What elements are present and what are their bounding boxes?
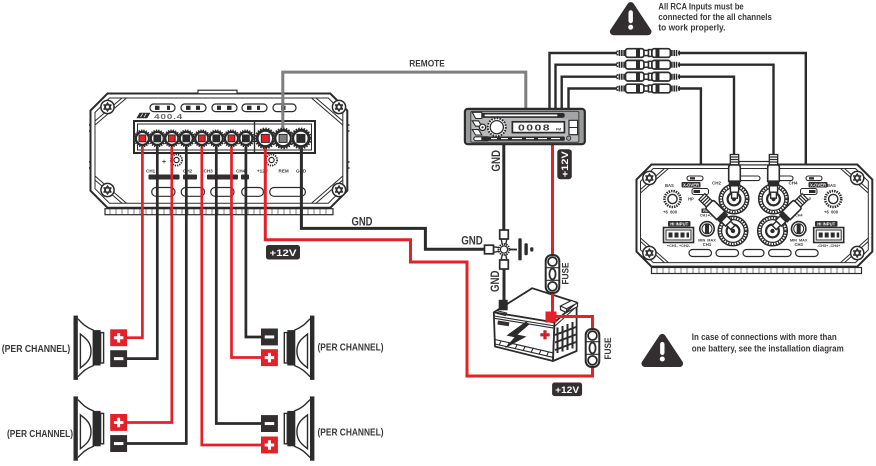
svg-text:In case of connections with mo: In case of connections with more than [692,332,837,343]
wire: remote gray from amp REM terminal to head unit [283,72,526,140]
amp2 corner diagonals [641,169,869,263]
battery positive terminal red [546,312,557,323]
wire: GND black from amp to ground junction [301,138,499,249]
RCA plug into amp2 top-left jack [729,155,741,199]
battery lid lip lines [494,290,575,329]
amp1 corner screws [101,100,114,113]
label +12V box near battery [552,383,582,397]
RCA plug diagonal into amp2 bottom-right jack [770,192,809,231]
RCA cable pair 1 [617,49,681,58]
amp1 top tab [198,90,237,94]
amp2 HI INPUT right [815,221,838,227]
amp2 bottom oval slots [689,250,818,257]
wire: RCA line 4 [569,89,618,111]
svg-text:(PER CHANNEL): (PER CHANNEL) [7,428,73,440]
RCA plug into amp2 top-right jack [768,155,780,199]
svg-text:+: + [162,159,166,166]
ground junction block [485,230,510,269]
svg-text:+12V: +12V [560,151,571,178]
warning text battery [692,332,844,354]
amp2 base finned strip [652,268,862,274]
battery BT1 [494,288,578,361]
amp1 bridged bars [149,175,250,180]
wire: speaker CH4- black [246,138,268,337]
svg-text:0008: 0008 [518,122,551,132]
amplifier A2 (top view with RCA inputs) [637,162,873,274]
head unit volume knob [488,118,506,136]
SP4 + terminal [261,437,278,454]
battery right face [553,303,577,362]
head unit bottom button strip [481,137,565,141]
svg-text:X-OVER: X-OVER [683,183,699,188]
wire: GND from head unit down to junction [502,142,505,244]
amplifier A1 (4-channel, front view) [89,90,350,215]
amp1 terminal center squares [139,134,305,142]
amp2 RCA jack bottom-right [758,216,788,246]
wire: speaker CH4+ red [232,138,269,358]
battery lightning bolt [505,322,530,349]
speaker SP2 (bottom left) [74,396,104,460]
amp2 RCA jack top-left [719,184,749,214]
label +12V rotated under head unit [557,149,572,179]
amp2 body octagon [637,165,873,267]
battery plus mark red [540,330,549,339]
amp1 strip divider [254,121,256,153]
svg-text:HI INPUT: HI INPUT [817,222,835,227]
head unit right button [569,120,578,134]
battery vent block [561,301,578,313]
head unit right top panel [563,112,579,119]
wire: RCA line 1 from head unit [550,53,618,110]
amp1 gain knob 2 [266,154,277,165]
amp2 top slots [687,176,822,181]
wire: speaker CH1+ red [120,138,142,338]
label +12V box near amp [266,245,300,260]
amp1 top vent connector row [150,104,296,112]
SP1 + terminal [110,329,127,346]
svg-text:+12V: +12V [270,248,298,259]
head unit small button circle [479,124,485,130]
wire: speaker CH3+ red [202,138,268,445]
head unit (car stereo) [465,109,585,144]
amp1 corner diagonals [95,98,343,203]
battery front face [494,312,555,361]
amp1 terminal strip [134,121,315,153]
svg-text:+6 600: +6 600 [824,210,839,215]
svg-text:400.4: 400.4 [154,114,183,121]
SP1 - terminal [110,350,127,367]
RCA plug diagonal into amp2 bottom-left jack [698,192,737,231]
svg-text:CH2: CH2 [712,181,721,186]
fuse F2 (battery main) [586,329,600,367]
svg-text:+CH1- +CH2-: +CH1- +CH2- [667,244,691,248]
SP3 - terminal [261,329,278,346]
svg-text:connected for the all channels: connected for the all channels [658,12,772,23]
amp2 x-over label left [682,182,701,188]
svg-text:to work properly.: to work properly. [658,22,725,33]
amp1 power terminals [255,129,275,149]
amp2 corner screws [643,171,656,184]
amp2 RCA jack top-right [759,184,789,214]
svg-text:FUSE: FUSE [561,263,572,285]
amp1 logo block [136,113,150,118]
amp2 inner outline [641,169,869,263]
wire: RCA line 2 [556,65,618,110]
svg-text:one battery, see the installat: one battery, see the installation diagra… [692,343,844,354]
svg-text:BAS: BAS [827,183,836,188]
SP2 - terminal [110,435,127,452]
svg-text:REMOTE: REMOTE [409,59,445,70]
head unit CD slot [481,113,565,118]
svg-text:GND: GND [461,233,483,247]
amp1 bottom oval slots [152,188,306,197]
head unit display [512,122,564,133]
svg-text:CH4: CH4 [236,169,246,174]
battery negative terminal [496,311,507,316]
svg-text:GND: GND [352,214,373,228]
speaker SP4 (bottom right) [284,396,314,460]
battery small label [497,321,509,327]
RCA cable pair 2 [617,60,681,69]
svg-text:All RCA Inputs must be: All RCA Inputs must be [658,1,743,12]
svg-text:HP: HP [688,197,694,202]
amp1 base finned strip [105,209,333,215]
svg-text:CH1: CH1 [146,169,156,174]
SP3 + terminal [261,349,278,366]
svg-text:(PER CHANNEL): (PER CHANNEL) [318,426,384,438]
warning triangle: RCA note [613,6,648,32]
svg-text:CH1: CH1 [703,242,712,247]
wire: speaker CH2- black [120,138,186,444]
svg-text:FUSE: FUSE [603,338,614,360]
svg-text:HI INPUT: HI INPUT [670,222,688,227]
svg-text:GND: GND [489,150,503,172]
battery right face cell grid [558,322,573,353]
wire: speaker CH1- black [120,138,157,359]
SP2 + terminal [110,414,127,431]
amp2 gain knob CH3 [792,222,806,236]
SP4 - terminal [261,415,278,432]
fuse F1 (head unit line) [546,255,560,293]
svg-text:CH2: CH2 [183,169,193,174]
svg-text:CH3: CH3 [204,169,214,174]
wire: GND from junction down to battery negative [503,255,506,302]
svg-text:X-OVER: X-OVER [810,183,826,188]
warning triangle: battery note [645,337,680,363]
svg-text:+12V: +12V [555,385,580,396]
wire: +12V red from fuse F1 down to battery positive [551,288,554,314]
amp2 x-over label right [809,182,828,188]
wire: speaker CH3- black [216,138,268,424]
svg-text:REM: REM [279,169,289,174]
svg-text:+12V: +12V [257,169,269,174]
svg-text:(PER CHANNEL): (PER CHANNEL) [2,343,71,355]
svg-text:CH3: CH3 [795,242,804,247]
RCA cable pair 4 [617,84,681,93]
battery front skirt ribs [495,340,553,358]
amp1 side fins [89,125,350,168]
amp1 channel labels [146,169,307,174]
wire: +12V red from amp to battery fuse F2 [265,138,592,376]
battery top face [494,288,577,322]
amp1 terminals overlay [134,129,310,149]
speaker SP1 (top left) [74,316,104,380]
amp1 speaker terminals 1-8 [134,130,150,146]
wire: +12V red from head unit down to fuse F1 [551,142,554,258]
svg-text:CH4: CH4 [789,181,798,186]
head unit left buttons [472,112,489,140]
svg-text:-CH3+ -CH4+: -CH3+ -CH4+ [817,244,841,248]
amp2 gain knob CH1 [700,222,714,236]
RCA cable pair 3 [617,72,681,81]
svg-text:BAS: BAS [665,183,674,188]
wire: red from battery positive to fuse F2 [552,317,593,331]
amp2 bass knob right [825,191,841,207]
amp2 top tab [739,162,770,165]
amp2 bass knob left [665,191,681,207]
ground symbol [510,249,517,251]
wire: RCA line 1 right to amp2 [678,53,806,196]
svg-text:(PER CHANNEL): (PER CHANNEL) [318,342,384,354]
amp2 RCA jack bottom-left [718,216,748,246]
wire: RCA line 3 [562,77,617,110]
amp1 body octagon [91,94,348,208]
svg-text:FM: FM [556,128,561,132]
amp2 HI INPUT left [668,221,691,227]
svg-text:+6 600: +6 600 [663,210,678,215]
warning text RCA [658,1,772,33]
svg-text:GND: GND [488,270,502,292]
amp1 inner outline [95,98,343,203]
wire: speaker CH2+ red [120,138,172,423]
speaker SP3 (top right) [284,316,314,380]
amp2 RM labels [702,209,711,213]
